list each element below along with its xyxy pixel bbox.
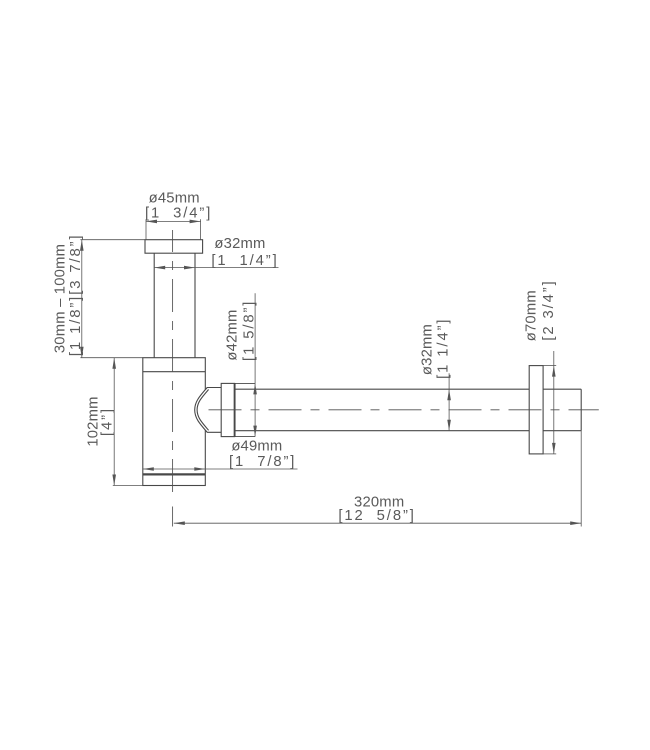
arrow ø32 inlet right [184,266,195,270]
svg-text:ø32mm: ø32mm [420,324,436,375]
arrow 102 down [112,475,116,486]
trap body [143,358,206,486]
arrow ø32 inlet left [154,266,165,270]
arrow ø70 down [552,443,556,454]
arrow ø45 left [146,220,157,224]
wall flange (ø70) [529,366,543,454]
arrow ø32 outlet down [447,420,451,431]
centerline extension to 320 dim [172,507,174,527]
svg-text:[4”]: [4”] [100,407,116,436]
svg-text:ø42mm: ø42mm [225,309,241,360]
svg-text:ø49mm: ø49mm [231,439,282,455]
arrow 320 left [174,521,185,525]
svg-text:[2 3/4”]: [2 3/4”] [541,279,557,340]
dim 30-100 extension bottom [80,357,142,359]
arrow ø49 right [194,467,205,471]
dim 30-100 line [81,240,83,358]
arrow ø42 up [253,383,257,394]
dim ø32 inlet line with leader [154,267,278,269]
svg-text:ø45mm: ø45mm [149,190,200,206]
nut face thick edge [234,383,236,436]
dim 102 line [113,358,115,486]
arrow 320 right [570,521,581,525]
arrow 30-100 down [80,347,84,358]
elbow dome outer [195,388,222,433]
svg-text:[1 1/8”][3 7/8”]: [1 1/8”][3 7/8”] [68,234,84,357]
arrow ø49 left [143,467,154,471]
dim ø45 extension right [200,219,202,239]
svg-text:[1 7/8”]: [1 7/8”] [229,454,296,470]
dim ø45 extension left [145,219,147,239]
sleeve top (ø42) [235,382,256,384]
svg-text:[12 5/8”]: [12 5/8”] [338,508,415,524]
arrow 30-100 up [80,240,84,251]
dim 30-100 extension top [80,239,145,241]
dim ø70 extension bottom [543,453,556,455]
svg-text:[1 5/8”]: [1 5/8”] [241,300,257,361]
horizontal centerline of outlet pipe [209,409,599,411]
dim ø32 outlet line [448,373,450,430]
dim ø70 line [553,351,555,454]
dim ø45 line [146,220,201,222]
sleeve bottom (ø42) [235,436,256,438]
body bottom cap joint line [143,473,206,475]
svg-text:ø70mm: ø70mm [523,290,539,341]
arrow ø45 right [190,220,201,224]
dim 320 extension right [580,431,582,527]
inlet pipe wall left [153,253,155,358]
outlet pipe bottom wall [235,430,582,432]
arrow ø70 up [552,366,556,377]
outlet pipe top wall [235,388,582,390]
dim ø70 extension top [543,365,556,367]
inlet pipe wall right [194,253,196,358]
svg-text:[1 1/4”]: [1 1/4”] [435,318,451,379]
arrow 102 up [112,358,116,369]
svg-text:ø32mm: ø32mm [214,236,265,252]
svg-text:[1 3/4”]: [1 3/4”] [145,206,212,222]
top flange (ø45 cap) [145,240,203,254]
vertical centerline of body [172,230,174,495]
arrow ø42 down [253,426,257,437]
outlet pipe end [580,389,582,431]
body top cap joint line [143,371,206,373]
elbow dome inner arc [197,390,209,431]
arrow ø32 outlet up [447,389,451,400]
dim 102 extension bottom [113,485,143,487]
svg-text:[1 1/4”]: [1 1/4”] [211,253,278,269]
dim 320 line [174,522,581,524]
compression nut [221,383,234,436]
svg-text:30mm – 100mm: 30mm – 100mm [53,244,69,353]
dim ø49 line with leader [143,468,298,470]
dim ø42 line [254,293,256,436]
